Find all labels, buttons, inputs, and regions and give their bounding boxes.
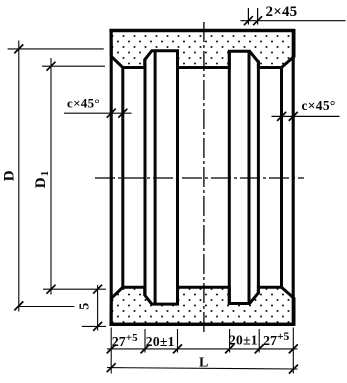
c x 45 right tick on end face [289,112,298,121]
2x45 extension line 1 [247,8,249,25]
svg-text:c×45°: c×45° [67,96,100,111]
bore entrance edge right [280,66,283,288]
extension from right end face [292,328,294,374]
groove edge left outer [144,59,147,296]
dimension D top extension line [8,48,104,50]
dimension 5 bottom extension line [82,325,106,327]
L dimension line [107,368,298,369]
outer top surface line [109,29,295,32]
dimension 5 tick bottom [93,322,102,331]
svg-text:20±1: 20±1 [146,334,175,349]
svg-text:2×45: 2×45 [266,4,298,20]
dimension D bottom extension line [17,306,74,308]
dimension D1 top extension line [42,65,105,67]
extension from right groove inner [229,329,231,353]
bottom dims: extension line from left end face [110,328,112,374]
dimension D1 tick top [47,62,56,71]
dimension D tick top [14,44,23,53]
groove edge right chamfer top [248,51,251,304]
extension from right groove outer [258,329,260,353]
c x 45 right tick on chamfer edge [277,112,286,121]
L tick left [107,363,116,372]
2x45 tick 2 [253,16,262,25]
dimension D1 tick bottom [47,285,56,294]
L tick right [289,365,298,374]
ticks on bottom dim row [107,344,116,353]
bottom dimension line (27+5 / 20+-1 row) [107,348,298,350]
dimension D1 / 5 shared bottom extension line [43,288,106,290]
groove edge right outer [257,60,260,294]
right end face [292,29,295,326]
dimension D line [18,41,20,312]
dimension 5 tick top [93,285,102,294]
c x 45 left tick on chamfer edge [118,109,127,118]
svg-text:L: L [199,355,208,370]
bore entrance edge left [121,66,124,288]
left end face [110,29,113,326]
svg-text:5: 5 [77,303,92,310]
chamfer dim 2x45: dimension line [240,20,345,22]
horizontal centerline [95,177,304,179]
top sectioned band (stippled) [111,31,294,68]
2x45 extension line 2 [257,8,259,25]
groove edge left inner [176,51,179,304]
dimension D tick bottom [14,301,23,310]
groove edge right inner [228,51,231,304]
extension from left groove outer [144,329,146,353]
vertical centerline [203,22,205,332]
bottom sectioned band (stippled, mirror) [111,287,294,324]
c x 45 left tick on end face [107,109,116,118]
extension from left groove inner [177,329,179,353]
groove edge left chamfer top [154,51,157,304]
svg-text:20±1: 20±1 [229,333,258,348]
dimension D1 line [50,58,52,295]
dimension 5 line [97,285,99,331]
chamfer callout c x 45 right: leader line [272,115,340,117]
chamfer callout c x 45 left: leader line [64,112,132,114]
outer bottom surface line [109,323,295,326]
svg-text:D: D [1,170,17,181]
svg-text:c×45°: c×45° [302,98,336,113]
2x45 tick 1 [244,16,253,25]
